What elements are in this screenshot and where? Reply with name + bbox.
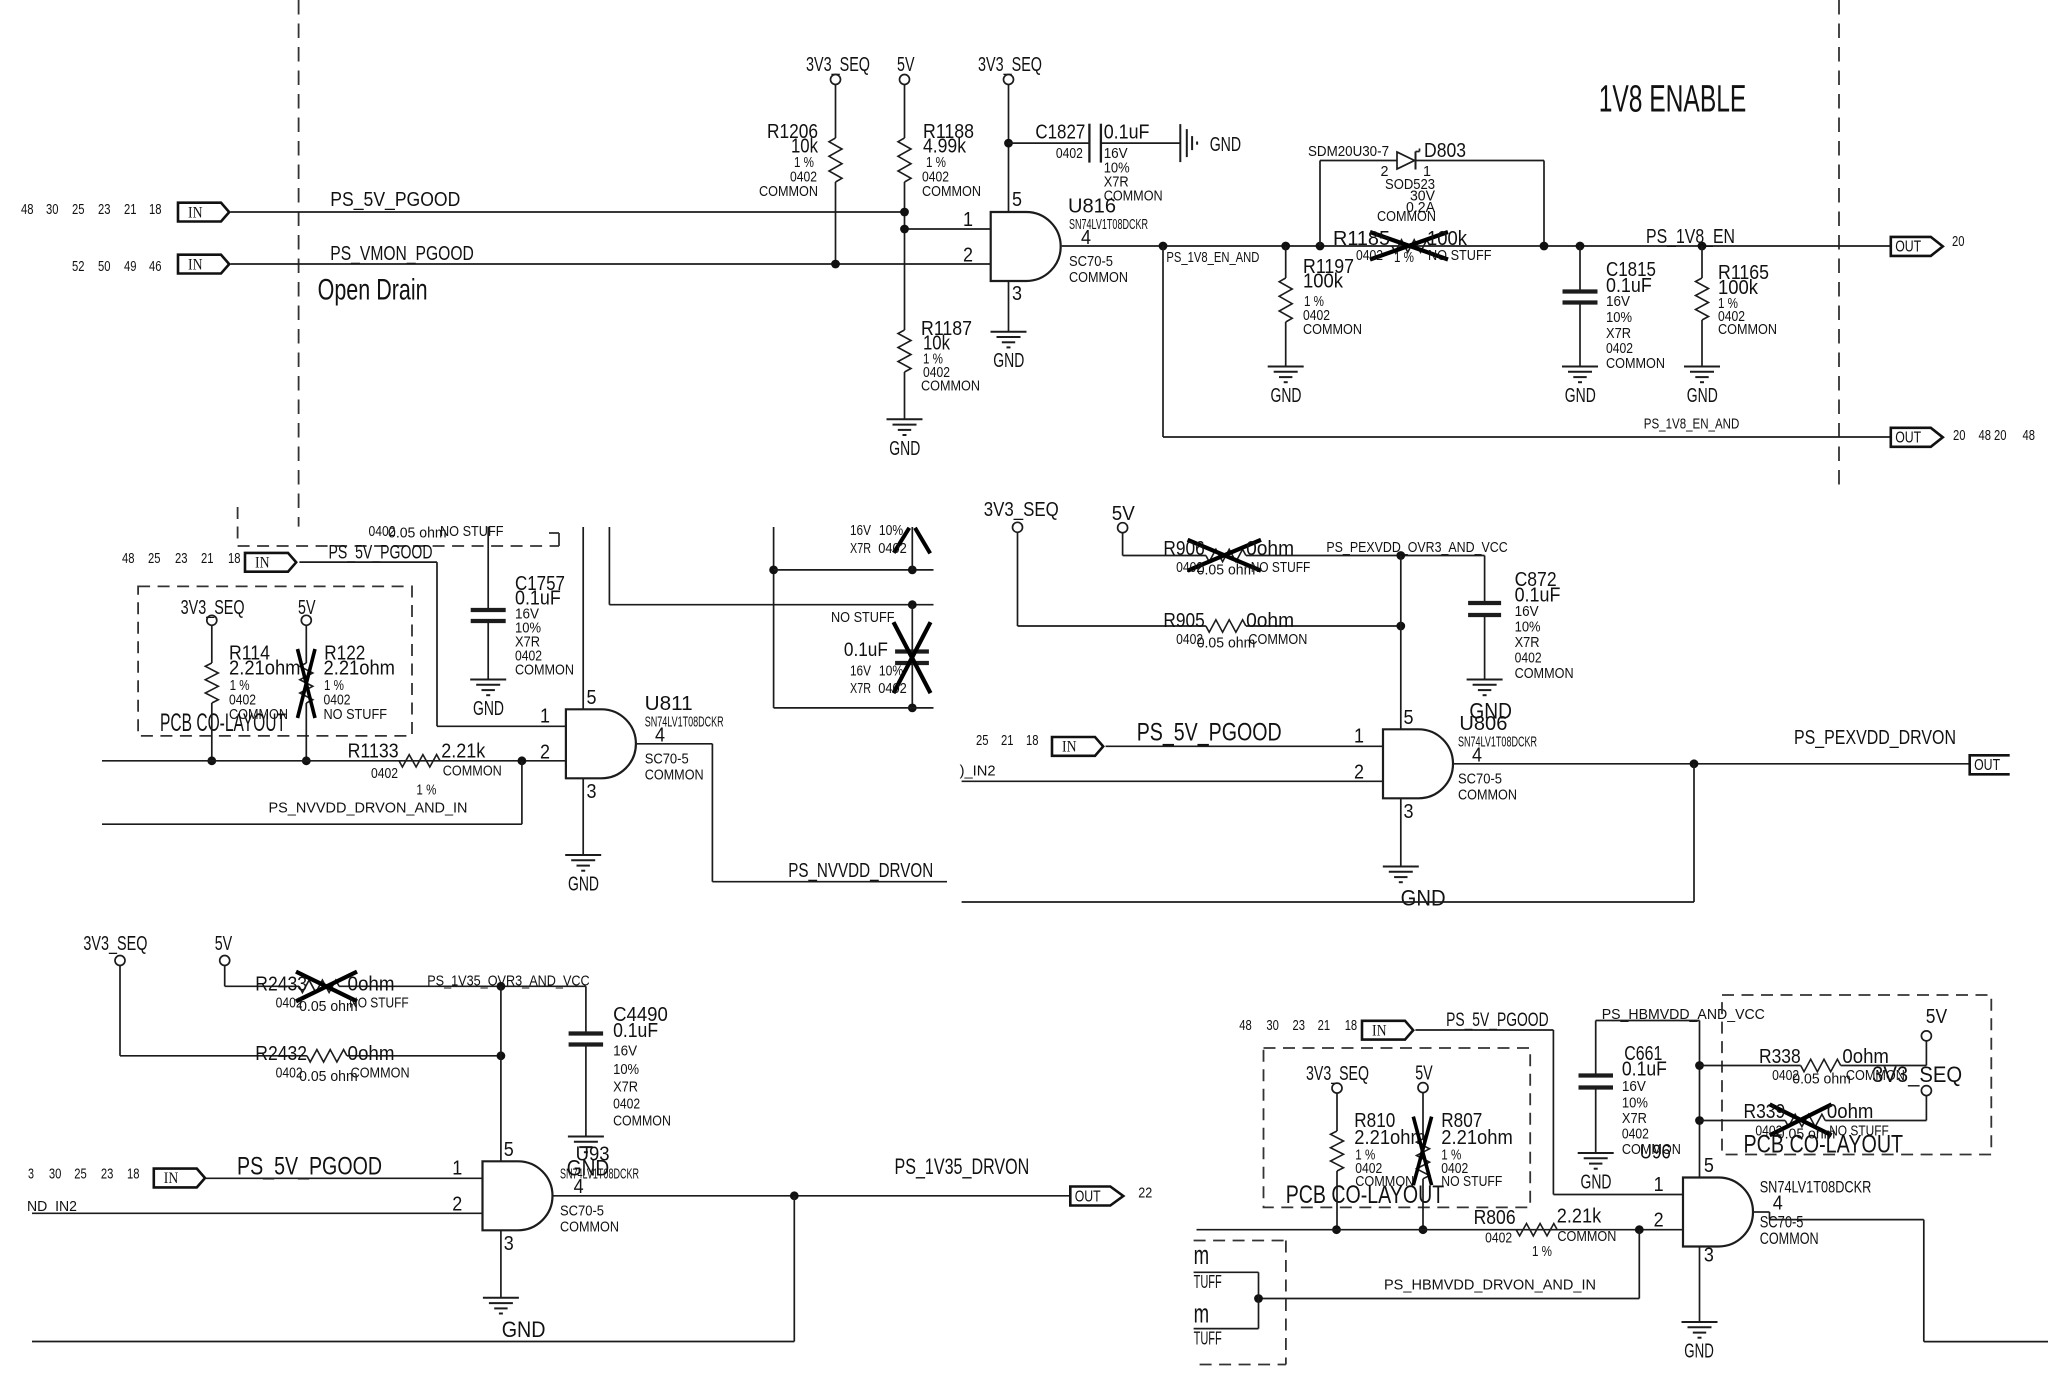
- resistor R1188 4.99k: [898, 138, 911, 182]
- svg-text:COMMON: COMMON: [921, 379, 980, 395]
- svg-text:PS_PEXVDD_DRVON: PS_PEXVDD_DRVON: [1794, 727, 1956, 749]
- wire U96 pin2 net: [1197, 1229, 1684, 1231]
- svg-text:D803: D803: [1424, 140, 1466, 162]
- svg-text:R905: R905: [1163, 610, 1204, 632]
- svg-text:GND: GND: [1687, 385, 1718, 407]
- svg-text:GND: GND: [1581, 1172, 1612, 1194]
- ground below U96: [1682, 1321, 1718, 1323]
- svg-text:5V: 5V: [1926, 1006, 1948, 1028]
- svg-text:16V: 16V: [850, 523, 871, 539]
- svg-text:SN74LV1T08DCKR: SN74LV1T08DCKR: [1760, 1178, 1872, 1197]
- svg-text:IN: IN: [164, 1170, 179, 1187]
- wire U811 pin5 from clip: [582, 527, 584, 709]
- svg-text:R338: R338: [1759, 1046, 1801, 1068]
- wire U816 pin1: [905, 228, 991, 230]
- svg-text:R2432: R2432: [255, 1043, 307, 1065]
- svg-text:3V3_SEQ: 3V3_SEQ: [1872, 1062, 1962, 1087]
- capacitor C1815 0.1uF: [1579, 246, 1581, 292]
- ground below R1187: [887, 418, 923, 420]
- svg-text:2: 2: [1654, 1210, 1664, 1232]
- svg-text:COMMON: COMMON: [1606, 356, 1665, 372]
- svg-text:1 %: 1 %: [416, 783, 436, 799]
- svg-text:18: 18: [228, 551, 241, 567]
- svg-text:3V3_SEQ: 3V3_SEQ: [984, 499, 1059, 521]
- svg-text:1 %: 1 %: [1394, 250, 1414, 266]
- svg-text:SC70-5: SC70-5: [560, 1203, 604, 1219]
- svg-text:52: 52: [72, 259, 85, 275]
- resistor R1185 100k NO STUFF crossed: [1392, 240, 1430, 252]
- svg-text:16V: 16V: [850, 663, 871, 679]
- resistor R806 2.21k: [1516, 1224, 1557, 1236]
- wire 3V3_SEQ to R1206: [835, 85, 837, 139]
- ground below C1815: [1562, 366, 1598, 368]
- svg-text:48: 48: [1979, 428, 1992, 444]
- svg-text:23: 23: [101, 1166, 114, 1182]
- svg-text:30: 30: [49, 1166, 62, 1182]
- dashed box PCB CO-LAYOUT (mid-left): [138, 586, 412, 736]
- port OUT PS_1V8_EN: [1891, 237, 1943, 256]
- wire R1187 to GND: [904, 372, 906, 419]
- svg-text:PS_NVVDD_DRVON: PS_NVVDD_DRVON: [788, 860, 933, 882]
- svg-text:IN: IN: [1062, 739, 1077, 756]
- svg-text:IN: IN: [188, 204, 203, 221]
- AND gate U816 SN74LV1T08DCKR: [991, 212, 1061, 281]
- wire to C872: [1484, 556, 1486, 604]
- wire 3V3_SEQ to R905: [1017, 532, 1019, 626]
- resistor R1206 10k: [829, 138, 842, 182]
- svg-text:23: 23: [175, 551, 188, 567]
- ground below U811: [565, 854, 601, 856]
- ground sideways for C1827: [1179, 124, 1181, 162]
- svg-text:COMMON: COMMON: [1515, 666, 1574, 682]
- wire U811 output PS_NVVDD_DRVON: [637, 743, 713, 745]
- svg-text:PS_5V_PGOOD: PS_5V_PGOOD: [1446, 1010, 1549, 1031]
- ground below U816: [991, 331, 1027, 333]
- junction R810: [1332, 1225, 1341, 1234]
- junction R1165: [1698, 242, 1707, 251]
- page dashed clip boundary (right): [1838, 0, 1840, 492]
- wire U811 pin2 net: [102, 760, 566, 762]
- svg-text:48: 48: [2023, 428, 2036, 444]
- svg-text:3: 3: [1404, 801, 1414, 823]
- svg-text:SC70-5: SC70-5: [1458, 771, 1502, 787]
- svg-text:0ohm: 0ohm: [348, 1043, 395, 1065]
- svg-text:PS_PEXVDD_OVR3_AND_VCC: PS_PEXVDD_OVR3_AND_VCC: [1326, 540, 1507, 556]
- svg-text:PS_HBMVDD_DRVON_AND_IN: PS_HBMVDD_DRVON_AND_IN: [1384, 1278, 1596, 1294]
- wire crossed-cap net B from clip: [608, 527, 610, 605]
- svg-text:20: 20: [1952, 234, 1965, 250]
- svg-text:46: 46: [149, 259, 162, 275]
- svg-text:COMMON: COMMON: [1355, 1174, 1414, 1190]
- wire U93 output PS_1V35_DRVON: [554, 1195, 1071, 1197]
- svg-text:3: 3: [1704, 1244, 1714, 1266]
- svg-text:PS_5V_PGOOD: PS_5V_PGOOD: [237, 1153, 382, 1181]
- svg-text:PS_1V8_EN: PS_1V8_EN: [1646, 226, 1735, 248]
- svg-text:25: 25: [976, 733, 989, 749]
- port OUT PS_1V8_EN_AND: [1891, 428, 1943, 447]
- port IN PS_5V_PGOOD (U93): [154, 1169, 205, 1188]
- port OUT PS_1V35_DRVON: [1070, 1187, 1123, 1206]
- svg-text:OUT: OUT: [1895, 239, 1921, 256]
- svg-text:2.21k: 2.21k: [441, 741, 486, 763]
- capacitor C872 0.1uF: [1468, 601, 1501, 605]
- svg-text:m: m: [1194, 1240, 1210, 1270]
- wire U816 pin3 to GND: [1008, 281, 1010, 332]
- svg-text:20: 20: [1994, 428, 2007, 444]
- wire clipped co-layout stubs: [1194, 1271, 1259, 1273]
- wire IN to U96 pin1: [1415, 1029, 1553, 1031]
- svg-text:1V8 ENABLE: 1V8 ENABLE: [1599, 78, 1747, 121]
- svg-text:COMMON: COMMON: [515, 663, 574, 679]
- svg-text:5V: 5V: [1112, 503, 1136, 525]
- svg-text:25: 25: [148, 551, 161, 567]
- svg-text:SN74LV1T08DCKR: SN74LV1T08DCKR: [645, 714, 724, 730]
- svg-text:0.05 ohm: 0.05 ohm: [388, 526, 447, 542]
- svg-text:TUFF: TUFF: [1194, 1272, 1222, 1292]
- svg-text:COMMON: COMMON: [1760, 1229, 1819, 1248]
- ground below R1197: [1268, 366, 1304, 368]
- svg-text:30: 30: [46, 202, 59, 218]
- svg-text:GND: GND: [568, 874, 599, 896]
- svg-text:23: 23: [1293, 1018, 1306, 1034]
- svg-text:0.1uF: 0.1uF: [613, 1020, 658, 1042]
- svg-text:X7R: X7R: [1622, 1111, 1647, 1127]
- svg-text:COMMON: COMMON: [229, 707, 288, 723]
- wire U93 pin3 to GND: [500, 1230, 502, 1298]
- junction R2433/pin5: [497, 982, 506, 991]
- junction R338: [1695, 1061, 1704, 1070]
- svg-text:C1827: C1827: [1035, 122, 1085, 144]
- svg-text:2: 2: [540, 741, 550, 763]
- svg-text:2: 2: [963, 245, 973, 267]
- svg-text:21: 21: [201, 551, 214, 567]
- svg-text:10%: 10%: [1622, 1096, 1648, 1112]
- svg-text:1: 1: [452, 1158, 462, 1180]
- svg-text:0.05 ohm: 0.05 ohm: [1197, 563, 1256, 579]
- port IN PS_5V_PGOOD (U96): [1362, 1021, 1413, 1040]
- svg-text:2.21ohm: 2.21ohm: [1441, 1127, 1513, 1149]
- svg-text:10%: 10%: [879, 663, 903, 679]
- junction R905/pin5: [1396, 622, 1405, 631]
- svg-text:)_IN2: )_IN2: [960, 764, 996, 780]
- junction R339: [1695, 1116, 1704, 1125]
- svg-text:PS_5V_PGOOD: PS_5V_PGOOD: [330, 189, 460, 211]
- resistor R807 2.21ohm NO STUFF crossed: [1422, 1093, 1424, 1139]
- wire 1V35 AND_IN2 return: [793, 1196, 795, 1342]
- svg-text:NO STUFF: NO STUFF: [1441, 1174, 1502, 1190]
- svg-text:3: 3: [504, 1233, 514, 1255]
- svg-text:5V: 5V: [1415, 1063, 1433, 1085]
- svg-text:2.21ohm: 2.21ohm: [1354, 1127, 1426, 1149]
- junction R1188/PS_5V_PGOOD: [900, 208, 909, 217]
- svg-text:COMMON: COMMON: [351, 1066, 410, 1082]
- svg-text:NO STUFF: NO STUFF: [831, 610, 895, 626]
- ground below C4490: [568, 1136, 604, 1138]
- svg-text:PS_5V_PGOOD: PS_5V_PGOOD: [1137, 719, 1282, 747]
- wire PS_5V_PGOOD to U811 pin1: [299, 561, 437, 563]
- junction diode branch right: [1540, 242, 1549, 251]
- port IN PS_5V_PGOOD: [178, 203, 229, 222]
- svg-text:OUT: OUT: [1075, 1188, 1101, 1205]
- svg-text:COMMON: COMMON: [1458, 787, 1517, 803]
- wire HBMVDD_AND_VCC net: [1596, 1020, 1700, 1022]
- dashed box PCB CO-LAYOUT (bottom-left of U96): [1264, 1048, 1531, 1207]
- resistor R1165 100k: [1701, 246, 1703, 278]
- wire U96 pin3 to GND: [1699, 1247, 1701, 1323]
- svg-text:18: 18: [1345, 1018, 1358, 1034]
- svg-text:SC70-5: SC70-5: [1069, 254, 1113, 270]
- AND gate U806 SN74LV1T08DCKR: [1383, 729, 1453, 798]
- svg-text:PS_1V8_EN_AND: PS_1V8_EN_AND: [1166, 250, 1259, 266]
- svg-text:IN: IN: [1372, 1022, 1387, 1039]
- svg-text:GND: GND: [502, 1317, 546, 1342]
- wire U816 output PS_1V8_EN: [1062, 245, 1891, 247]
- svg-text:SDM20U30-7: SDM20U30-7: [1308, 144, 1389, 160]
- svg-text:GND: GND: [993, 350, 1024, 372]
- svg-text:GND: GND: [889, 438, 920, 460]
- svg-text:0ohm: 0ohm: [1246, 538, 1294, 560]
- junction PEXVDD AND_IN2 branch: [1690, 759, 1699, 768]
- svg-text:1: 1: [1654, 1174, 1664, 1196]
- junction crossed cap bottom: [908, 704, 917, 713]
- capacitor C661 0.1uF: [1595, 1021, 1597, 1076]
- svg-text:COMMON: COMMON: [1069, 270, 1128, 286]
- wire U93 pin2 net: [32, 1212, 483, 1214]
- svg-text:18: 18: [127, 1166, 140, 1182]
- junction diode branch left: [1316, 242, 1325, 251]
- wire to C1827: [1009, 142, 1090, 144]
- wire R1206 to PS_VMON_PGOOD: [835, 182, 837, 264]
- AND gate U93 SN74LV1T08DCKR: [483, 1161, 553, 1230]
- AND gate U811 SN74LV1T08DCKR: [566, 709, 636, 778]
- svg-text:COMMON: COMMON: [1248, 632, 1307, 648]
- svg-text:2.21ohm: 2.21ohm: [229, 658, 301, 680]
- junction R807: [1419, 1225, 1428, 1234]
- svg-text:COMMON: COMMON: [1557, 1229, 1616, 1245]
- port OUT PS_PEXVDD_DRVON (clipped): [1970, 755, 2010, 774]
- svg-text:25: 25: [72, 202, 85, 218]
- junction pin1 branch: [900, 225, 909, 234]
- svg-text:IN: IN: [188, 256, 203, 273]
- svg-text:NO STUFF: NO STUFF: [440, 524, 504, 540]
- svg-text:0ohm: 0ohm: [348, 973, 395, 995]
- wire AND_IN2 return: [1693, 764, 1695, 902]
- junction R806/AND_IN: [1635, 1225, 1644, 1234]
- svg-text:X7R: X7R: [613, 1080, 638, 1096]
- ground below U93: [483, 1297, 519, 1299]
- svg-text:X7R: X7R: [1515, 635, 1540, 651]
- svg-text:0402: 0402: [1485, 1231, 1512, 1247]
- svg-text:GND: GND: [473, 698, 504, 720]
- svg-text:R2433: R2433: [255, 973, 307, 995]
- svg-text:18: 18: [1026, 733, 1039, 749]
- svg-text:U811: U811: [645, 693, 693, 715]
- svg-text:3: 3: [1012, 283, 1022, 305]
- wire 3V3_SEQ to R2432: [119, 966, 121, 1056]
- wire PS_NVVDD_DRVON_AND_IN: [102, 823, 522, 825]
- svg-text:0402: 0402: [1356, 248, 1383, 264]
- svg-text:10%: 10%: [1606, 310, 1632, 326]
- svg-text:10%: 10%: [879, 523, 903, 539]
- svg-text:100k: 100k: [1303, 271, 1344, 293]
- junction R1133/AND_IN: [518, 756, 527, 765]
- resistor R122 2.21ohm NO STUFF crossed: [305, 625, 307, 663]
- resistor R1187 10k: [898, 330, 911, 372]
- svg-text:TUFF: TUFF: [1194, 1329, 1222, 1349]
- svg-text:NO STUFF: NO STUFF: [1829, 1124, 1889, 1140]
- junction R122: [302, 756, 311, 765]
- junction crossed cap top: [908, 566, 917, 575]
- wire IN to U806 pin1: [1106, 745, 1384, 747]
- wire C1827 to GND: [1101, 142, 1180, 144]
- svg-text:GND: GND: [1271, 385, 1302, 407]
- partial dashed co-layout box top: [237, 507, 239, 546]
- svg-text:5: 5: [587, 687, 597, 709]
- junction net A tap: [769, 566, 778, 575]
- svg-text:U96: U96: [1640, 1142, 1671, 1164]
- svg-text:NO STUFF: NO STUFF: [324, 707, 388, 723]
- svg-text:SN74LV1T08DCKR: SN74LV1T08DCKR: [560, 1166, 639, 1182]
- svg-text:R806: R806: [1474, 1207, 1516, 1229]
- svg-text:COMMON: COMMON: [922, 184, 981, 200]
- resistor R1133 2.21k: [399, 755, 440, 767]
- wire diode branch: [1319, 161, 1321, 247]
- wire 3V3_SEQ to U816 pin5: [1008, 85, 1010, 213]
- resistor R2433 0ohm NO STUFF crossed: [299, 980, 339, 992]
- svg-text:X7R: X7R: [850, 541, 871, 557]
- wire PS_1V8_EN_AND vertical: [1162, 246, 1164, 437]
- svg-text:Open Drain: Open Drain: [318, 274, 428, 307]
- capacitor 0.1uF NO STUFF crossed: [911, 605, 913, 652]
- svg-text:NO STUFF: NO STUFF: [349, 996, 409, 1012]
- svg-text:0402: 0402: [1056, 146, 1083, 162]
- svg-text:0.05 ohm: 0.05 ohm: [1792, 1072, 1851, 1088]
- svg-text:COMMON: COMMON: [645, 767, 704, 783]
- wire U811 pin3 to GND: [582, 778, 584, 855]
- svg-text:5: 5: [1404, 707, 1414, 729]
- junction PS_1V8_EN_AND branch: [1159, 242, 1168, 251]
- svg-text:R1133: R1133: [348, 741, 399, 763]
- svg-text:PS_5V_PGOOD: PS_5V_PGOOD: [329, 543, 433, 564]
- svg-text:0.05 ohm: 0.05 ohm: [299, 1069, 358, 1085]
- svg-text:NO STUFF: NO STUFF: [1251, 560, 1311, 576]
- svg-text:3V3_SEQ: 3V3_SEQ: [806, 54, 870, 76]
- svg-text:GND: GND: [1565, 385, 1596, 407]
- svg-text:0.05 ohm: 0.05 ohm: [1197, 636, 1256, 652]
- wire U96 output PS_HBMVDD_DRVON: [1754, 1211, 1770, 1213]
- crossed-out cap X remains (top): [894, 528, 910, 553]
- junction R2432/pin5: [497, 1051, 506, 1060]
- svg-text:GND: GND: [1401, 886, 1446, 911]
- svg-text:U806: U806: [1459, 713, 1507, 735]
- wire U806 pin3 to GND: [1400, 798, 1402, 866]
- junction R114: [207, 756, 216, 765]
- capacitor C4490 0.1uF: [569, 1031, 604, 1035]
- svg-text:0ohm: 0ohm: [1827, 1101, 1874, 1123]
- capacitor C1827 0.1uF: [1088, 124, 1090, 163]
- svg-text:22: 22: [1138, 1185, 1152, 1201]
- svg-text:COMMON: COMMON: [560, 1219, 619, 1235]
- svg-text:PS_1V35_DRVON: PS_1V35_DRVON: [895, 1154, 1030, 1179]
- ground below C1757: [470, 679, 506, 681]
- wire U93 pin5: [500, 986, 502, 1161]
- svg-text:COMMON: COMMON: [1303, 322, 1362, 338]
- junction crossed cap bottom top-terminal: [908, 600, 917, 609]
- svg-text:5: 5: [1012, 189, 1022, 211]
- svg-text:10%: 10%: [1515, 620, 1541, 636]
- svg-text:3: 3: [28, 1166, 34, 1182]
- svg-text:COMMON: COMMON: [613, 1114, 671, 1130]
- svg-text:3V3_SEQ: 3V3_SEQ: [1306, 1063, 1369, 1085]
- AND gate U96 SN74LV1T08DCKR: [1683, 1178, 1753, 1247]
- wire PS_5V_PGOOD: [231, 211, 905, 213]
- svg-text:2.21ohm: 2.21ohm: [324, 658, 396, 680]
- partial dashed box (bottom-left clip): [1194, 1240, 1286, 1242]
- svg-text:48: 48: [1239, 1018, 1252, 1034]
- svg-text:1 %: 1 %: [1532, 1244, 1552, 1260]
- svg-text:21: 21: [1318, 1018, 1331, 1034]
- svg-text:30: 30: [1266, 1018, 1279, 1034]
- wire IN to U93 pin1: [206, 1177, 483, 1179]
- svg-text:GND: GND: [1684, 1341, 1714, 1363]
- svg-text:0.1uF: 0.1uF: [1622, 1059, 1667, 1081]
- svg-text:5V: 5V: [897, 54, 915, 76]
- junction C1827 tap: [1004, 139, 1013, 148]
- wire U806 pin2 net: [962, 780, 1383, 782]
- svg-text:2: 2: [452, 1193, 462, 1215]
- svg-text:GND: GND: [1210, 134, 1241, 156]
- ground below U806: [1383, 866, 1419, 868]
- wire 5V to R1188: [904, 85, 906, 139]
- wire to C4490: [585, 986, 587, 1033]
- diode D803 SDM20U30-7: [1397, 152, 1415, 169]
- svg-text:0ohm: 0ohm: [1246, 610, 1294, 632]
- svg-text:0402: 0402: [371, 766, 398, 782]
- wire U96 pin5: [1699, 1021, 1701, 1178]
- resistor R114 2.21ohm: [211, 625, 213, 663]
- svg-text:5: 5: [1704, 1155, 1714, 1177]
- svg-text:0402: 0402: [1515, 651, 1542, 667]
- svg-text:1: 1: [963, 209, 973, 231]
- wire 5V to R2433: [224, 966, 226, 987]
- svg-text:OUT: OUT: [1895, 430, 1921, 447]
- svg-text:0.1uF: 0.1uF: [1104, 122, 1150, 144]
- svg-text:16V: 16V: [613, 1044, 637, 1060]
- resistor R905 0ohm: [1206, 620, 1246, 632]
- svg-text:PS_1V8_EN_AND: PS_1V8_EN_AND: [1644, 416, 1740, 432]
- svg-text:3: 3: [587, 781, 597, 803]
- wire crossed cap top stub from clip: [911, 527, 913, 570]
- port IN PS_VMON_PGOOD: [178, 255, 229, 274]
- ground below C661: [1578, 1152, 1614, 1154]
- svg-text:COMMON: COMMON: [443, 764, 502, 780]
- wire PS_HBMVDD_DRVON_AND_IN: [1638, 1230, 1640, 1299]
- svg-text:16V: 16V: [1622, 1079, 1646, 1095]
- svg-text:3V3_SEQ: 3V3_SEQ: [978, 54, 1042, 76]
- svg-text:48: 48: [122, 551, 135, 567]
- svg-text:0402: 0402: [878, 681, 907, 697]
- svg-text:0402: 0402: [1606, 341, 1633, 357]
- resistor R1197 100k: [1285, 246, 1287, 278]
- svg-text:m: m: [1194, 1298, 1210, 1328]
- svg-text:49: 49: [124, 259, 137, 275]
- svg-text:0402: 0402: [1622, 1127, 1649, 1143]
- svg-text:R906: R906: [1163, 538, 1204, 560]
- junction R1197: [1281, 242, 1290, 251]
- capacitor C1757 0.1uF: [487, 527, 489, 610]
- wire PS_1V8_EN_AND to OUT: [1163, 436, 1891, 438]
- junction R906/pin5: [1396, 551, 1405, 560]
